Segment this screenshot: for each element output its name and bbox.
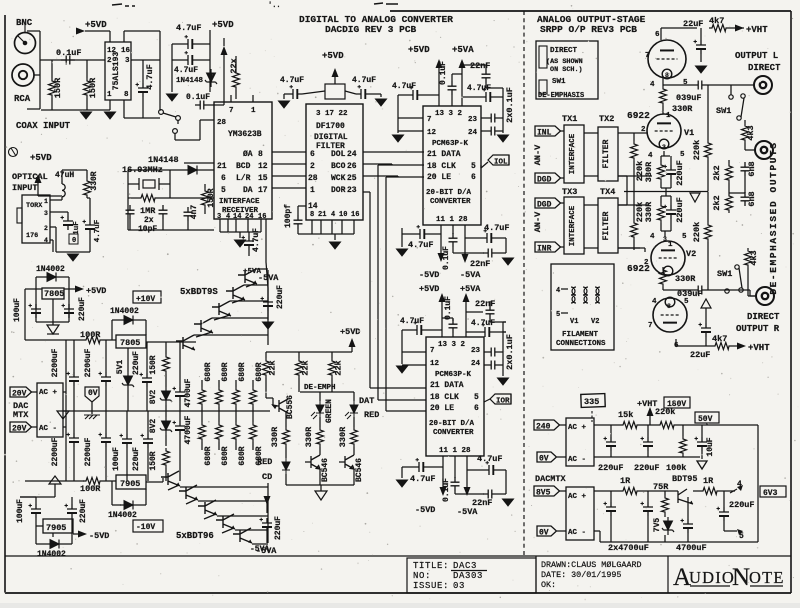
svg-text:CONVERTER: CONVERTER: [433, 429, 474, 437]
svg-text:330R: 330R: [675, 274, 696, 284]
svg-text:11 1 28: 11 1 28: [439, 447, 471, 455]
svg-text:5: 5: [471, 162, 476, 171]
svg-text:0.1uF: 0.1uF: [56, 48, 82, 58]
svg-text:V1: V1: [684, 128, 694, 138]
svg-text:680R: 680R: [255, 446, 264, 465]
svg-text:2: 2: [310, 162, 315, 171]
svg-text:6922: 6922: [627, 110, 650, 121]
svg-text:8V2: 8V2: [149, 390, 158, 405]
svg-text:4k7: 4k7: [712, 334, 727, 344]
svg-text:INR: INR: [537, 245, 552, 254]
svg-text:2200uF: 2200uF: [84, 348, 93, 377]
svg-text:3: 3: [662, 144, 666, 151]
svg-text:28: 28: [308, 174, 318, 183]
svg-text:220k: 220k: [635, 161, 645, 181]
svg-text:7: 7: [427, 116, 432, 124]
svg-text:FILTER: FILTER: [602, 211, 611, 240]
svg-text:1uF: 1uF: [73, 221, 81, 235]
svg-text:1: 1: [107, 91, 112, 99]
svg-text:PCM63P-K: PCM63P-K: [432, 140, 469, 148]
svg-text:GREEN: GREEN: [325, 399, 334, 423]
svg-text:220uF: 220uF: [276, 285, 285, 309]
svg-text:DACDIG REV 3 PCB: DACDIG REV 3 PCB: [325, 24, 417, 35]
svg-text:DAT: DAT: [359, 396, 374, 406]
svg-text:0.1uF: 0.1uF: [442, 246, 451, 270]
svg-text:BCD: BCD: [236, 162, 251, 171]
svg-text:4.7uF: 4.7uF: [392, 82, 416, 91]
svg-text:039uF: 039uF: [676, 93, 702, 103]
svg-text:4.7uF: 4.7uF: [94, 219, 102, 242]
svg-text:4: 4: [737, 480, 742, 489]
svg-text:+5VD: +5VD: [419, 284, 439, 294]
svg-text:21 DATA: 21 DATA: [430, 381, 464, 390]
svg-text:1R: 1R: [703, 476, 714, 486]
svg-text:INPUT: INPUT: [12, 183, 38, 193]
svg-text:6: 6: [310, 150, 315, 159]
svg-text:7: 7: [430, 347, 435, 355]
svg-text:RED: RED: [364, 410, 379, 420]
svg-text:4: 4: [652, 298, 657, 306]
svg-text:INTERFACE: INTERFACE: [569, 133, 577, 174]
svg-text:OTE: OTE: [749, 568, 785, 587]
svg-text:4700uF: 4700uF: [676, 543, 707, 553]
svg-text:2200uF: 2200uF: [51, 437, 60, 466]
svg-text:4700uF: 4700uF: [184, 415, 193, 444]
svg-text:100R: 100R: [80, 484, 101, 494]
svg-text:4.7uF: 4.7uF: [408, 240, 434, 250]
svg-text:14: 14: [308, 202, 318, 211]
svg-text:DOL: DOL: [331, 150, 346, 159]
svg-text:22k: 22k: [301, 360, 311, 375]
svg-text:1: 1: [668, 241, 673, 249]
svg-text:TX3: TX3: [562, 187, 577, 197]
svg-text:21 DATA: 21 DATA: [427, 150, 461, 159]
svg-text:4: 4: [650, 81, 655, 89]
svg-text:5: 5: [684, 298, 689, 306]
svg-text:0.1uF: 0.1uF: [442, 478, 451, 502]
svg-text:220uF: 220uF: [729, 500, 755, 510]
svg-text:220uF: 220uF: [132, 351, 141, 375]
svg-text:TORX: TORX: [26, 202, 43, 210]
svg-text:AC +: AC +: [568, 493, 587, 501]
svg-text:17: 17: [258, 186, 268, 195]
svg-text:23: 23: [347, 186, 357, 195]
svg-text:INTERFACE: INTERFACE: [219, 198, 260, 206]
svg-text:20 LE: 20 LE: [430, 404, 454, 413]
svg-text:4: 4: [648, 152, 653, 160]
svg-text:OUTPUT L: OUTPUT L: [735, 51, 778, 61]
svg-text:680R: 680R: [204, 446, 213, 465]
svg-text:4k7: 4k7: [709, 16, 724, 26]
svg-text:3: 3: [44, 210, 48, 217]
svg-text:+5VA: +5VA: [460, 284, 481, 294]
svg-text:4k3: 4k3: [749, 250, 759, 265]
svg-text:5V1: 5V1: [116, 360, 125, 375]
svg-text:6V3: 6V3: [763, 489, 778, 498]
svg-text:4.7uF: 4.7uF: [176, 23, 202, 33]
svg-text:IOL: IOL: [494, 159, 508, 167]
svg-text:0.1uF: 0.1uF: [186, 93, 210, 102]
svg-text:0V: 0V: [539, 455, 549, 464]
svg-text:22x: 22x: [229, 58, 239, 73]
svg-text:220uF: 220uF: [675, 197, 685, 223]
svg-text:47uH: 47uH: [55, 171, 74, 180]
svg-text:COAX INPUT: COAX INPUT: [16, 121, 71, 131]
svg-text:7905: 7905: [46, 523, 66, 533]
svg-text:4.7uF: 4.7uF: [145, 64, 155, 90]
svg-text:20V: 20V: [12, 390, 27, 399]
svg-text:V2: V2: [591, 318, 599, 326]
svg-text:2200uF: 2200uF: [51, 348, 60, 377]
svg-text:AC +: AC +: [568, 424, 587, 432]
svg-text:240: 240: [536, 423, 551, 432]
svg-text:220k: 220k: [692, 222, 702, 242]
svg-text:DE-EMPHASISED OUTPUTS: DE-EMPHASISED OUTPUTS: [768, 141, 779, 294]
svg-text:15k: 15k: [618, 410, 633, 420]
svg-text:5: 5: [221, 186, 226, 195]
svg-text:24: 24: [468, 129, 478, 137]
svg-text:150R: 150R: [149, 355, 158, 374]
svg-text:2x0.1uF: 2x0.1uF: [505, 87, 515, 123]
svg-text:1: 1: [251, 107, 256, 115]
svg-text:AC -: AC -: [39, 425, 57, 433]
svg-text:BC546: BC546: [355, 458, 364, 482]
svg-text:13 3 2: 13 3 2: [435, 110, 463, 118]
svg-text:OPTICAL: OPTICAL: [12, 172, 48, 182]
svg-text:-5VD: -5VD: [419, 270, 439, 280]
svg-text:220uF: 220uF: [78, 297, 87, 321]
svg-text:0.1uF: 0.1uF: [444, 296, 453, 320]
svg-text:5: 5: [683, 79, 688, 87]
svg-text:ON SCH.): ON SCH.): [550, 66, 583, 74]
svg-text:24: 24: [471, 360, 481, 368]
svg-text:330R: 330R: [644, 201, 654, 222]
svg-text:2x: 2x: [144, 216, 154, 225]
svg-text:220uF: 220uF: [132, 447, 141, 471]
svg-text:1N4002: 1N4002: [36, 265, 65, 274]
svg-text:335: 335: [584, 397, 599, 407]
svg-text:8: 8: [310, 211, 314, 219]
svg-text:3: 3: [125, 57, 130, 65]
svg-text:SW1: SW1: [552, 78, 566, 86]
svg-text:220uF: 220uF: [675, 160, 685, 186]
svg-text:V2: V2: [686, 249, 696, 259]
svg-text:220k: 220k: [655, 407, 675, 417]
svg-text:DATE: 30/01/1995: DATE: 30/01/1995: [541, 570, 621, 580]
svg-text:4.7uF: 4.7uF: [467, 84, 491, 93]
svg-text:SRPP O/P REV3 PCB: SRPP O/P REV3 PCB: [540, 24, 637, 35]
svg-text:DAC3: DAC3: [453, 561, 477, 571]
svg-text:CD: CD: [262, 472, 272, 482]
svg-text:5: 5: [474, 393, 479, 402]
svg-text:6: 6: [474, 404, 479, 413]
svg-text:220uF: 220uF: [598, 463, 624, 473]
svg-text:2: 2: [44, 225, 48, 232]
svg-text:AC -: AC -: [568, 456, 586, 464]
svg-text:12: 12: [107, 47, 117, 55]
svg-text:N: N: [732, 564, 750, 591]
svg-text:YM3623B: YM3623B: [228, 130, 262, 139]
svg-text:7805: 7805: [44, 289, 64, 299]
svg-text:DIGITAL: DIGITAL: [314, 133, 348, 142]
svg-text:4: 4: [44, 237, 48, 244]
svg-text:100k: 100k: [666, 463, 686, 473]
svg-text:3: 3: [663, 236, 667, 243]
svg-text:2x0.1uF: 2x0.1uF: [505, 334, 515, 370]
svg-text:INL: INL: [537, 129, 552, 138]
svg-text:1N4002: 1N4002: [108, 511, 137, 520]
svg-text:TITLE:: TITLE:: [413, 561, 449, 571]
svg-text:-10V: -10V: [136, 523, 155, 532]
svg-text:1N4002: 1N4002: [110, 307, 139, 316]
svg-text:+VHT: +VHT: [746, 25, 768, 35]
svg-text:20-BIT D/A: 20-BIT D/A: [429, 420, 475, 428]
svg-text:22nF: 22nF: [470, 259, 490, 269]
svg-text:7: 7: [648, 322, 653, 330]
svg-text:176: 176: [26, 232, 38, 240]
svg-text:+5VD: +5VD: [322, 51, 344, 61]
svg-text:TX2: TX2: [599, 114, 614, 124]
svg-text:RCA: RCA: [14, 94, 31, 104]
svg-text:ISSUE:: ISSUE:: [413, 581, 449, 591]
svg-text:1MR: 1MR: [140, 206, 156, 216]
svg-text:16: 16: [258, 213, 266, 221]
svg-text:6n8: 6n8: [747, 161, 757, 176]
svg-text:+5VD: +5VD: [86, 286, 106, 296]
svg-text:220uF: 220uF: [634, 463, 660, 473]
svg-text:4.7uF: 4.7uF: [174, 66, 198, 75]
svg-text:4: 4: [650, 233, 655, 241]
svg-text:4: 4: [331, 211, 335, 219]
svg-text:330R: 330R: [672, 104, 693, 114]
svg-text:24: 24: [245, 213, 253, 221]
svg-text:13 3 2: 13 3 2: [438, 341, 466, 349]
svg-text:24: 24: [347, 150, 357, 159]
svg-text:7: 7: [229, 107, 234, 115]
svg-text:BDT95: BDT95: [672, 474, 698, 484]
svg-text:AN-V: AN-V: [533, 144, 543, 165]
svg-text:16: 16: [351, 211, 359, 219]
svg-text:MTX: MTX: [13, 410, 29, 420]
svg-text:OK:: OK:: [541, 580, 556, 590]
svg-text:DA: DA: [243, 186, 253, 195]
svg-text:12: 12: [427, 129, 437, 137]
svg-text:0.1uF: 0.1uF: [439, 61, 448, 85]
svg-text:220k: 220k: [635, 202, 645, 222]
svg-text:4.7uF: 4.7uF: [400, 317, 424, 326]
svg-text:8: 8: [667, 303, 671, 310]
svg-text:8: 8: [665, 72, 669, 79]
svg-text:4.7uF: 4.7uF: [352, 76, 376, 85]
svg-text:5: 5: [680, 151, 685, 159]
svg-text:680R: 680R: [204, 362, 213, 381]
svg-text:DIRECT: DIRECT: [550, 47, 578, 55]
svg-text:BC546: BC546: [321, 458, 330, 482]
svg-text:23: 23: [468, 116, 478, 124]
svg-text:150R: 150R: [53, 77, 63, 98]
svg-text:DIRECT: DIRECT: [747, 312, 780, 322]
svg-text:330R: 330R: [90, 171, 99, 190]
svg-text:TX1: TX1: [562, 114, 577, 124]
svg-text:1N4002: 1N4002: [37, 550, 66, 559]
svg-text:'..: '..: [268, 2, 281, 10]
svg-text:NO:: NO:: [413, 571, 431, 581]
svg-text:-5VD: -5VD: [415, 505, 435, 515]
svg-text:DIRECT: DIRECT: [748, 63, 781, 73]
svg-text:12: 12: [258, 162, 268, 171]
svg-text:DRAWN:CLAUS MØLGAARD: DRAWN:CLAUS MØLGAARD: [541, 560, 642, 570]
svg-text:1N4148: 1N4148: [176, 77, 204, 85]
svg-text:DA303: DA303: [453, 571, 483, 581]
svg-text:3 17 22: 3 17 22: [316, 110, 348, 118]
svg-text:1N4148: 1N4148: [148, 155, 179, 165]
svg-text:21: 21: [217, 162, 227, 171]
svg-text:50V: 50V: [698, 415, 713, 424]
svg-text:BC556: BC556: [286, 395, 295, 419]
svg-text:AN-V: AN-V: [533, 211, 543, 232]
svg-text:2k2: 2k2: [712, 195, 722, 210]
svg-text:5xBDT9S: 5xBDT9S: [180, 287, 218, 297]
svg-text:7805: 7805: [120, 338, 140, 348]
svg-text:150R: 150R: [88, 77, 98, 98]
svg-text:2k2: 2k2: [712, 165, 722, 180]
svg-text:8V5: 8V5: [536, 489, 551, 498]
svg-text:BNC: BNC: [16, 18, 33, 28]
svg-text:L/R: L/R: [236, 174, 251, 183]
svg-text:DE-EMPH: DE-EMPH: [304, 384, 336, 392]
svg-text:(AS SHOWN: (AS SHOWN: [546, 58, 583, 66]
svg-text:4.7uF: 4.7uF: [484, 223, 510, 233]
svg-text:AC +: AC +: [39, 389, 58, 397]
svg-text:WCK: WCK: [331, 174, 346, 183]
svg-text:1: 1: [310, 186, 315, 195]
svg-text:SW1: SW1: [717, 269, 732, 279]
svg-text:8: 8: [124, 91, 129, 99]
svg-text:20V: 20V: [12, 425, 27, 434]
svg-text:21: 21: [318, 211, 326, 219]
svg-text:0V: 0V: [539, 529, 549, 538]
svg-text:DGD: DGD: [537, 176, 552, 185]
svg-text:4: 4: [556, 287, 560, 295]
svg-text:220uF: 220uF: [79, 499, 88, 523]
svg-text:680R: 680R: [221, 446, 230, 465]
svg-text:330R: 330R: [644, 161, 654, 182]
svg-text:+5VA: +5VA: [452, 45, 474, 55]
svg-text:AC -: AC -: [568, 529, 586, 537]
svg-text:CONNECTIONS: CONNECTIONS: [556, 340, 606, 348]
svg-text:FILTER: FILTER: [602, 139, 611, 168]
svg-text:22uF: 22uF: [690, 350, 710, 360]
svg-text:100uF: 100uF: [112, 447, 121, 471]
svg-text:100uF: 100uF: [13, 298, 22, 322]
svg-text:+5VD: +5VD: [85, 20, 107, 30]
svg-text:28: 28: [217, 119, 227, 127]
svg-text:6n8: 6n8: [747, 191, 757, 206]
svg-text:680R: 680R: [255, 362, 264, 381]
svg-text:15: 15: [258, 174, 268, 183]
svg-text:5: 5: [556, 311, 560, 319]
svg-text:100uF: 100uF: [16, 499, 25, 523]
svg-text:2: 2: [644, 259, 649, 267]
svg-text:DACMTX: DACMTX: [535, 474, 567, 484]
svg-text:680R: 680R: [238, 362, 247, 381]
svg-text:7905: 7905: [120, 479, 140, 489]
svg-text:8: 8: [258, 150, 263, 159]
svg-text:+5VD: +5VD: [340, 327, 360, 337]
svg-text:03: 03: [453, 581, 465, 591]
svg-text:ØA: ØA: [243, 150, 253, 159]
svg-text:22k: 22k: [334, 360, 344, 375]
svg-text:26: 26: [347, 162, 357, 171]
svg-text:-5VA: -5VA: [250, 545, 269, 554]
svg-text:PCM63P-K: PCM63P-K: [435, 371, 472, 379]
svg-text:FILAMENT: FILAMENT: [562, 331, 599, 339]
svg-text:OUTPUT R: OUTPUT R: [736, 324, 780, 334]
svg-text:V1: V1: [570, 318, 578, 326]
svg-text:+5VD: +5VD: [212, 20, 234, 30]
svg-text:0V: 0V: [88, 389, 98, 398]
svg-text:680R: 680R: [238, 446, 247, 465]
svg-text:75ALS193: 75ALS193: [112, 52, 121, 91]
svg-text:150R: 150R: [149, 451, 158, 470]
svg-text:5xBDT96: 5xBDT96: [176, 531, 214, 541]
svg-text:22k: 22k: [268, 360, 278, 375]
svg-text:220uF: 220uF: [274, 516, 283, 540]
svg-text:DGD: DGD: [537, 201, 552, 210]
svg-text:220k: 220k: [692, 140, 702, 160]
svg-text:2200uF: 2200uF: [84, 437, 93, 466]
svg-text:20-BIT D/A: 20-BIT D/A: [426, 189, 472, 197]
svg-text:100pf: 100pf: [284, 204, 293, 228]
svg-text:4k3: 4k3: [746, 125, 756, 140]
svg-text:680R: 680R: [221, 362, 230, 381]
svg-text:-5VA: -5VA: [457, 507, 478, 517]
svg-text:6: 6: [471, 173, 476, 182]
svg-text:330R: 330R: [270, 426, 280, 447]
svg-text:330R: 330R: [338, 426, 348, 447]
svg-text:8V2: 8V2: [149, 419, 158, 434]
svg-text:+VHT: +VHT: [748, 343, 770, 353]
svg-text:20 LE: 20 LE: [427, 173, 451, 182]
svg-text:1: 1: [666, 112, 671, 120]
svg-text:11 1 28: 11 1 28: [436, 216, 468, 224]
svg-text:18 CLK: 18 CLK: [430, 393, 459, 402]
svg-text:5: 5: [682, 233, 687, 241]
svg-text:DF1700: DF1700: [316, 122, 345, 131]
svg-text:4.7uF: 4.7uF: [252, 228, 261, 252]
svg-text:+5VA: +5VA: [243, 268, 262, 276]
svg-text:4.7uF: 4.7uF: [410, 474, 436, 484]
svg-text:+5VD: +5VD: [30, 153, 52, 163]
svg-text:4700uF: 4700uF: [184, 378, 193, 407]
svg-text:2x4700uF: 2x4700uF: [608, 543, 649, 553]
svg-text:14: 14: [233, 213, 241, 221]
svg-text:22uF: 22uF: [683, 19, 703, 29]
svg-text:5: 5: [739, 532, 744, 541]
svg-text:4.7uF: 4.7uF: [280, 76, 304, 85]
svg-text:2: 2: [107, 57, 112, 65]
svg-text:IOR: IOR: [496, 398, 510, 406]
svg-text:1: 1: [44, 198, 48, 205]
svg-text:INTERFACE: INTERFACE: [569, 205, 577, 246]
svg-text:12: 12: [430, 360, 440, 368]
svg-text:22nF: 22nF: [475, 299, 495, 309]
svg-text:CONVERTER: CONVERTER: [430, 198, 471, 206]
svg-text:1R: 1R: [620, 476, 631, 486]
svg-text:4.7uF: 4.7uF: [477, 454, 503, 464]
svg-text:-5VA: -5VA: [258, 273, 279, 283]
svg-text:25: 25: [347, 174, 357, 183]
